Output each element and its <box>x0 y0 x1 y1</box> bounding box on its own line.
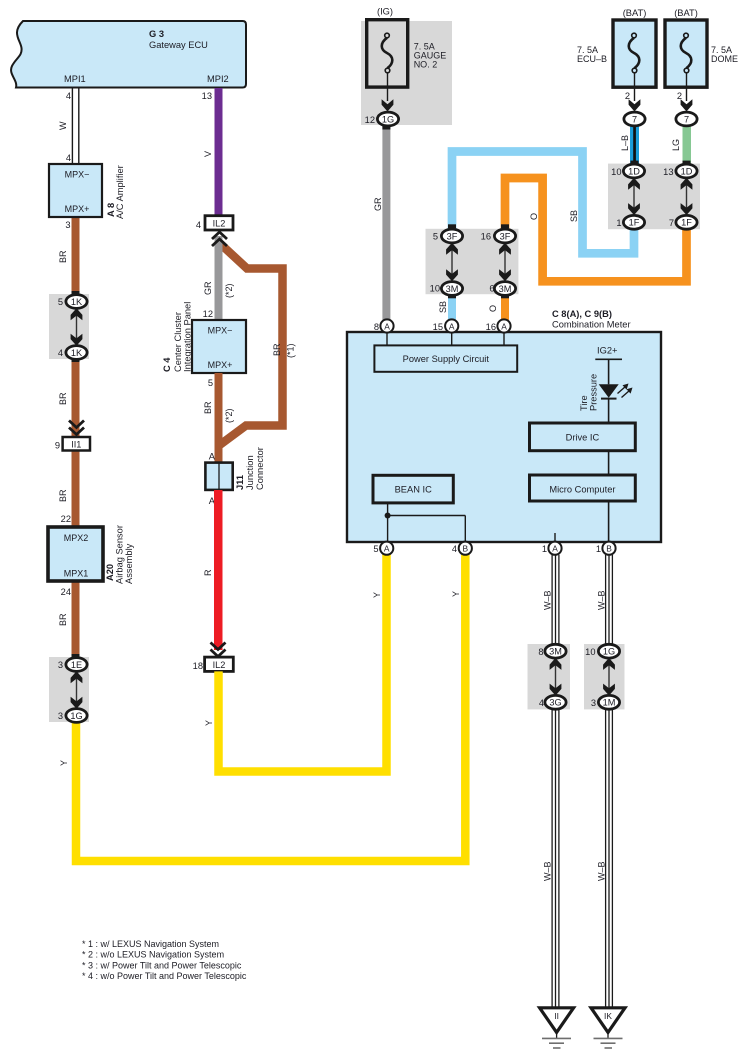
svg-text:Power Supply Circuit: Power Supply Circuit <box>403 354 490 364</box>
svg-text:GR: GR <box>203 281 213 295</box>
svg-text:1: 1 <box>596 544 601 554</box>
svg-text:Junction: Junction <box>245 455 255 490</box>
wire BR A8 to 1K <box>58 217 80 295</box>
wire Y IL2 to meter pin 5A <box>204 552 387 772</box>
svg-text:C 8(A), C 9(B): C 8(A), C 9(B) <box>552 309 612 319</box>
wire W-B 1M to ground IK <box>597 709 613 1008</box>
svg-text:10: 10 <box>430 284 440 294</box>
power supply circuit box <box>374 345 517 371</box>
svg-text:3M: 3M <box>549 647 562 657</box>
wire BR C4 to J11 <box>203 373 234 463</box>
svg-text:NO. 2: NO. 2 <box>414 59 438 69</box>
fuse 7.5A ECU-B (BAT) <box>577 8 656 126</box>
svg-text:MPX+: MPX+ <box>208 360 233 370</box>
svg-text:A: A <box>384 321 390 331</box>
svg-text:4: 4 <box>66 153 71 163</box>
svg-text:MPI2: MPI2 <box>207 74 229 84</box>
svg-text:MPX−: MPX− <box>65 170 90 180</box>
svg-text:II1: II1 <box>71 439 81 449</box>
connector IL2 pin 4 <box>196 216 233 230</box>
svg-text:G 3: G 3 <box>149 29 164 39</box>
svg-text:7: 7 <box>669 218 674 228</box>
svg-text:C 4: C 4 <box>162 357 172 372</box>
svg-text:18: 18 <box>193 661 203 671</box>
svg-text:O: O <box>488 305 498 312</box>
svg-text:16: 16 <box>481 232 491 242</box>
wire W-B 1A to 3M <box>543 555 559 645</box>
chevron into II1 <box>69 421 84 435</box>
svg-text:BR: BR <box>203 401 213 414</box>
micro computer box <box>530 475 636 542</box>
wire GR IL2 to C4 <box>203 236 234 320</box>
svg-text:13: 13 <box>663 167 673 177</box>
svg-text:16: 16 <box>486 322 496 332</box>
svg-text:BR: BR <box>58 489 68 502</box>
pin 1 A bottom <box>542 542 562 555</box>
LED tire pressure <box>579 374 633 423</box>
drive IC box <box>530 423 636 475</box>
svg-text:1D: 1D <box>628 166 640 176</box>
svg-text:1G: 1G <box>382 114 394 124</box>
svg-text:2: 2 <box>677 91 682 101</box>
svg-text:ECU–B: ECU–B <box>577 54 607 64</box>
svg-text:1K: 1K <box>71 348 83 358</box>
svg-text:Center Cluster: Center Cluster <box>173 312 183 372</box>
ground II <box>540 1008 574 1048</box>
svg-text:A: A <box>449 321 455 331</box>
wire Y 1G to meter pin 4B <box>59 552 465 861</box>
svg-text:MPI1: MPI1 <box>64 74 86 84</box>
svg-text:A: A <box>209 452 216 462</box>
svg-text:BR: BR <box>58 250 68 263</box>
svg-text:LG: LG <box>671 139 681 151</box>
svg-text:Connector: Connector <box>255 447 265 490</box>
svg-text:Pressure: Pressure <box>589 374 599 411</box>
svg-text:4: 4 <box>539 698 544 708</box>
svg-text:4: 4 <box>58 348 63 358</box>
connector 3F/3M pairs <box>426 224 519 298</box>
pin 1 B bottom <box>596 542 616 555</box>
svg-text:9: 9 <box>55 441 60 451</box>
svg-text:* 2 : w/o LEXUS Navigation Sys: * 2 : w/o LEXUS Navigation System <box>82 950 224 960</box>
svg-text:* 4 : w/o Power Tilt and Power: * 4 : w/o Power Tilt and Power Telescopi… <box>82 971 247 981</box>
svg-text:1D: 1D <box>681 166 693 176</box>
svg-text:3G: 3G <box>549 698 561 708</box>
pin 8 A <box>374 319 394 345</box>
svg-text:SB: SB <box>569 210 579 222</box>
svg-text:3: 3 <box>58 711 63 721</box>
svg-text:5: 5 <box>433 232 438 242</box>
wire L-B fuse to 1D <box>620 126 639 165</box>
svg-text:L–B: L–B <box>620 135 630 151</box>
svg-text:Integration Panel: Integration Panel <box>183 302 193 372</box>
svg-text:8: 8 <box>374 322 379 332</box>
wire O 3M to meter pin 16A <box>488 295 509 320</box>
svg-text:BR: BR <box>58 613 68 626</box>
wire BR 1K to II1 <box>58 359 80 437</box>
fuse 7.5A GAUGE NO.2 (IG) <box>361 7 452 126</box>
pin 16 A <box>486 319 511 345</box>
svg-text:W–B: W–B <box>543 861 553 881</box>
svg-text:1G: 1G <box>603 647 615 657</box>
wire R J11 to IL2 <box>203 490 223 650</box>
svg-text:SB: SB <box>438 301 448 313</box>
svg-text:1K: 1K <box>71 297 83 307</box>
svg-text:8: 8 <box>538 647 543 657</box>
svg-text:Gateway ECU: Gateway ECU <box>149 40 208 50</box>
svg-text:13: 13 <box>202 91 212 101</box>
svg-text:1F: 1F <box>629 218 640 228</box>
wire W-B 3G to ground II <box>543 709 559 1008</box>
svg-text:A: A <box>552 544 558 554</box>
svg-text:10: 10 <box>611 167 621 177</box>
svg-text:3: 3 <box>58 660 63 670</box>
svg-text:R: R <box>203 569 213 576</box>
svg-text:7: 7 <box>632 114 637 124</box>
A8 A/C Amplifier <box>49 164 125 219</box>
svg-text:W–B: W–B <box>597 590 607 610</box>
svg-text:O: O <box>529 213 539 220</box>
svg-text:(*2): (*2) <box>224 283 234 298</box>
BEAN IC output wires and junction <box>385 503 466 542</box>
svg-text:3: 3 <box>65 220 70 230</box>
svg-text:1G: 1G <box>70 711 82 721</box>
svg-text:1: 1 <box>616 218 621 228</box>
svg-text:IK: IK <box>604 1011 612 1021</box>
svg-text:W–B: W–B <box>597 861 607 881</box>
svg-text:B: B <box>606 544 612 554</box>
wire LG fuse to 1D <box>671 126 691 165</box>
svg-text:(*1): (*1) <box>286 343 296 358</box>
connector 1G/1M pair <box>584 644 625 709</box>
svg-text:IG2+: IG2+ <box>597 346 617 356</box>
svg-text:4: 4 <box>452 544 457 554</box>
svg-text:15: 15 <box>433 322 443 332</box>
svg-text:Micro Computer: Micro Computer <box>549 484 615 494</box>
svg-text:IL2: IL2 <box>213 660 226 670</box>
pin 5 A bottom <box>373 542 393 555</box>
ground IK <box>591 1008 625 1048</box>
BEAN IC box <box>373 475 453 503</box>
junction connector J11 <box>205 447 265 490</box>
wire SB 3F to 1F loop <box>452 152 634 254</box>
svg-text:3M: 3M <box>499 284 512 294</box>
svg-text:1M: 1M <box>603 698 616 708</box>
stub above pin 1A <box>554 533 556 542</box>
A20 Airbag Sensor Assembly <box>48 525 134 584</box>
svg-text:24: 24 <box>61 587 71 597</box>
svg-text:1E: 1E <box>71 660 82 670</box>
svg-text:* 3 : w/ Power Tilt and Power: * 3 : w/ Power Tilt and Power Telescopic <box>82 960 242 970</box>
svg-text:5: 5 <box>208 378 213 388</box>
footnotes <box>82 939 247 981</box>
svg-text:BR: BR <box>272 343 282 356</box>
svg-text:3: 3 <box>591 698 596 708</box>
svg-text:Assembly: Assembly <box>124 543 134 584</box>
wire GR 1G to meter pin 8A <box>373 126 390 322</box>
svg-text:22: 22 <box>61 514 71 524</box>
svg-text:1F: 1F <box>681 218 692 228</box>
svg-text:(BAT): (BAT) <box>623 8 647 18</box>
chevron out of IL2 <box>212 232 227 246</box>
svg-text:1: 1 <box>542 544 547 554</box>
svg-text:* 1 : w/ LEXUS Navigation Syst: * 1 : w/ LEXUS Navigation System <box>82 939 219 949</box>
svg-text:IL2: IL2 <box>213 219 226 229</box>
svg-text:II: II <box>554 1011 559 1021</box>
connector IL2 pin 18 <box>193 657 234 671</box>
svg-text:4: 4 <box>196 220 201 230</box>
svg-text:DOME: DOME <box>711 54 738 64</box>
wire O 3F to 1F loop <box>505 178 687 281</box>
svg-text:Y: Y <box>372 592 382 598</box>
svg-text:W–B: W–B <box>543 590 553 610</box>
svg-text:Y: Y <box>451 591 461 597</box>
combination meter C8(A) C9(B) <box>347 309 661 542</box>
svg-text:BR: BR <box>58 392 68 405</box>
connector 1K pair <box>49 291 89 362</box>
svg-text:(*2): (*2) <box>224 408 234 423</box>
svg-text:10: 10 <box>585 647 595 657</box>
svg-text:MPX2: MPX2 <box>64 533 89 543</box>
svg-text:7: 7 <box>684 114 689 124</box>
svg-text:Tire: Tire <box>579 395 589 411</box>
connector 3M/3G pair <box>528 644 571 709</box>
svg-text:Combination Meter: Combination Meter <box>552 320 631 330</box>
svg-text:3F: 3F <box>447 231 458 241</box>
svg-text:Airbag Sensor: Airbag Sensor <box>115 525 125 584</box>
chevron into IL2 pin 18 <box>211 643 226 657</box>
svg-text:A/C Amplifier: A/C Amplifier <box>115 165 125 219</box>
svg-text:5: 5 <box>58 297 63 307</box>
node IG2+ <box>595 346 622 385</box>
svg-text:6: 6 <box>489 284 494 294</box>
wire W-B 1B to 1G <box>597 555 613 645</box>
Gateway ECU G3 <box>11 21 246 88</box>
fuse 7.5A DOME (BAT) <box>665 8 738 126</box>
connector 1E/1G pair <box>49 654 89 722</box>
svg-text:MPX1: MPX1 <box>64 569 89 579</box>
svg-text:J11: J11 <box>235 475 245 490</box>
connector 1D/1F pairs <box>608 161 700 230</box>
svg-text:(IG): (IG) <box>377 7 393 17</box>
svg-text:2: 2 <box>625 91 630 101</box>
pin 4 B bottom <box>452 542 472 555</box>
svg-text:W: W <box>58 121 68 130</box>
C4 Center Cluster Integration Panel <box>162 302 246 373</box>
pin 15 A <box>433 319 459 345</box>
wire V MPI2 to IL2 <box>203 88 223 216</box>
svg-text:4: 4 <box>66 91 71 101</box>
svg-text:Drive IC: Drive IC <box>566 433 600 443</box>
svg-text:GR: GR <box>373 197 383 211</box>
svg-text:A: A <box>384 544 390 554</box>
svg-text:B: B <box>463 544 469 554</box>
svg-text:BEAN IC: BEAN IC <box>395 485 432 495</box>
svg-text:MPX−: MPX− <box>208 326 233 336</box>
svg-text:5: 5 <box>373 544 378 554</box>
wire BR II1 to A20 <box>58 451 80 528</box>
svg-text:12: 12 <box>365 115 375 125</box>
wire BR bypass loop (*1) <box>219 244 296 446</box>
svg-text:3M: 3M <box>446 284 459 294</box>
svg-text:12: 12 <box>203 309 213 319</box>
svg-text:Y: Y <box>204 720 214 726</box>
wire W MPI1 to A8 <box>58 88 79 164</box>
connector II1 <box>55 437 90 451</box>
svg-text:MPX+: MPX+ <box>65 204 90 214</box>
svg-text:(BAT): (BAT) <box>674 8 698 18</box>
svg-text:Y: Y <box>59 760 69 766</box>
svg-text:A: A <box>501 321 507 331</box>
svg-text:3F: 3F <box>500 231 511 241</box>
wire BR A20 to 1E <box>58 581 80 657</box>
svg-text:V: V <box>203 151 213 157</box>
svg-text:A20: A20 <box>105 564 115 581</box>
wire SB 3M to meter pin 15A <box>438 295 456 320</box>
